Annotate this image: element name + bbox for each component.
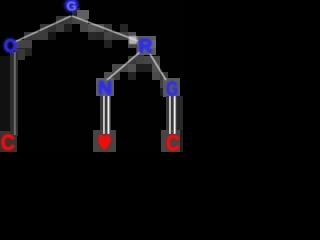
red C left background block [0,131,17,152]
node C left glow [1,131,15,155]
node R glow [139,37,153,58]
wire N-heart halo [100,96,111,134]
node O glow [4,36,17,56]
wire R-N [107,52,140,80]
node heart glow [99,135,111,150]
wire N-heart double bond line 2 [108,96,110,134]
wire R-G artifacts [144,56,168,96]
node R background lighter sub-block [148,40,156,48]
wire root-O artifacts [16,16,72,56]
wire G-C halo [166,96,177,134]
right margin strip [177,96,183,130]
O lower-right artifact block [15,49,25,60]
wire R-G [150,54,166,80]
node root glyph glow [65,0,79,12]
root right artifact block [77,10,89,19]
node C right glow [166,131,180,155]
node O [4,36,17,56]
node N glow [98,79,112,100]
node R background block [137,36,156,55]
svg-text:C: C [1,131,15,152]
node R [139,37,153,58]
wire root-R artifacts [72,8,144,48]
svg-text:G: G [66,0,76,14]
node G2 [166,76,178,100]
red heart background block [93,130,116,152]
wire root-R [72,16,138,41]
svg-text:N: N [98,79,112,100]
node N background block [96,78,114,96]
svg-text:O: O [4,36,17,56]
node G2 glow [166,76,178,100]
node C right [166,131,180,155]
wire N-heart double bond line 1 [103,96,105,134]
wire R-N artifacts [104,48,144,96]
wire root-O [14,16,72,43]
wire G-C double bond line 1 [169,96,171,134]
svg-text:C: C [166,131,180,152]
node N [98,79,112,100]
node root glyph body [65,0,77,11]
svg-text:G: G [166,76,178,100]
node C left [1,131,15,155]
node G background block [163,78,180,97]
wire G-C double bond line 2 [174,96,176,134]
white artifact block left of R [129,36,137,44]
red C right background block [161,130,180,152]
wire O-C halo [10,52,18,136]
node heart [99,135,111,150]
svg-text:R: R [139,37,153,58]
left margin faint strip [0,56,10,152]
wire O-C single bond [14,52,15,135]
